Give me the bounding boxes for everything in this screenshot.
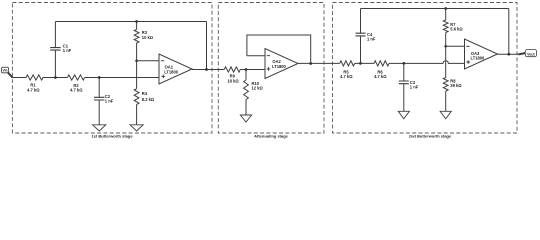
wire: R7 to inverting node (445, 33, 447, 47)
junction: inverting node of OA3 (444, 45, 447, 48)
junction: OA1 output node (205, 68, 208, 71)
ground under C2 (93, 125, 106, 131)
svg-text:Attenuating stage: Attenuating stage (254, 134, 289, 139)
port Vout (525, 50, 536, 57)
wire: C1 up to feedback rail (54, 22, 56, 48)
wire: Vout arrow lead (519, 53, 526, 54)
wire: C2 to ground (98, 100, 100, 125)
wire: C4 up to feedback rail (360, 9, 362, 34)
wire: node C up to C4 (360, 36, 362, 64)
wire: node A up to C1 (54, 50, 56, 77)
wire: C3 to ground (403, 84, 405, 112)
wire: feedback down to output node (206, 22, 208, 70)
ground under R8 (440, 111, 451, 119)
ground under R10 (240, 115, 251, 122)
resistor R4 (134, 89, 139, 105)
svg-text:1 nF: 1 nF (410, 85, 419, 90)
svg-text:4.7 kΩ: 4.7 kΩ (340, 74, 353, 79)
node A junction (R1/R2/C1) (54, 76, 57, 79)
op-amp OA2 LT1800 (265, 49, 298, 79)
wire: inverting node down to R4 (136, 61, 138, 89)
wire: OA2 output (298, 62, 340, 64)
svg-text:2nd Butterworth stage: 2nd Butterworth stage (409, 134, 452, 139)
wire: R6 to OA3 + input with hop over R8 (389, 61, 465, 64)
resistor R7 (443, 20, 448, 33)
wire: R1 to node A (43, 77, 67, 79)
wire: Vin to R1 (12, 77, 26, 79)
op-amp OA3 LT1800 (465, 39, 498, 69)
svg-text:1 nF: 1 nF (105, 99, 114, 104)
wire: feedback rail down to output node (508, 9, 510, 55)
wire: R4 to ground (136, 104, 138, 124)
resistor R5 (340, 61, 355, 66)
wire: inverting node to OA3 - input (446, 45, 465, 47)
wire: OA3 output (498, 53, 521, 55)
svg-text:8.2 kΩ: 8.2 kΩ (142, 97, 155, 102)
stage box: 2nd Butterworth stage (333, 3, 518, 134)
stage box: 1st Butterworth stage (12, 3, 212, 134)
wire: inverting node down to R8 (crosses main wire) (445, 46, 447, 77)
junction: OA2 output node (309, 62, 312, 65)
svg-text:4.7 kΩ: 4.7 kΩ (70, 88, 83, 93)
wire: node D down to C3 (403, 63, 405, 81)
wire: stage3 feedback rail (361, 8, 509, 10)
wire: OA2 feedback loop (247, 35, 311, 64)
wire: R5 to node C (355, 62, 374, 64)
op-amp OA1 LT1800 (159, 54, 192, 84)
wire: OA2 - input from feedback (247, 55, 265, 57)
node B junction (C2 tap) (98, 76, 101, 79)
resistor R6 (374, 61, 389, 66)
capacitor C4 (356, 33, 366, 36)
wire: R2 to op-amp + input (85, 77, 159, 79)
wire: OA1 output (192, 69, 224, 71)
capacitor C2 (94, 97, 104, 100)
ground under R4 (130, 125, 143, 131)
wire: R3 to inverting node (136, 43, 138, 61)
junction: node C (C4 tap) (359, 62, 362, 65)
wire: node down to R10 (245, 70, 247, 81)
wire: R8 to ground (445, 91, 447, 111)
junction: OA3 output node (507, 53, 510, 56)
svg-text:4.7 kΩ: 4.7 kΩ (27, 87, 40, 92)
wire: inverting node to OA1 - input (137, 60, 159, 62)
capacitor C1 (50, 48, 60, 51)
stage box: Attenuating stage (218, 3, 324, 134)
svg-text:4.7 kΩ: 4.7 kΩ (374, 74, 387, 79)
resistor R2 (67, 75, 84, 80)
capacitor C3 (399, 81, 409, 84)
svg-text:LT1800: LT1800 (164, 70, 179, 75)
resistor R3 (134, 29, 139, 43)
svg-text:R4: R4 (142, 91, 148, 96)
svg-text:Vout: Vout (527, 52, 535, 56)
junction: inverting node of OA1 (135, 59, 138, 62)
svg-text:Vin: Vin (2, 69, 7, 73)
svg-text:10 kΩ: 10 kΩ (142, 35, 154, 40)
wire: stage1 feedback rail (55, 21, 206, 23)
wire: R9 to OA2 + input (240, 69, 265, 71)
port Vin (1, 67, 8, 73)
svg-text:18 kΩ: 18 kΩ (227, 78, 239, 83)
svg-text:5.6 kΩ: 5.6 kΩ (450, 27, 463, 32)
svg-text:39 kΩ: 39 kΩ (450, 83, 462, 88)
wire: rail to R3 (136, 22, 138, 30)
wire: R10 to ground (245, 100, 247, 116)
svg-text:1 nF: 1 nF (367, 37, 376, 42)
svg-text:1 nF: 1 nF (63, 48, 72, 53)
resistor R8 (443, 78, 448, 92)
svg-text:12 kΩ: 12 kΩ (252, 86, 264, 91)
junction: R9/R10 divider node (245, 68, 248, 71)
junction: R3 top on feedback rail (135, 20, 138, 23)
svg-text:LT1800: LT1800 (471, 56, 486, 61)
junction: R7 top on feedback rail (444, 7, 447, 10)
wire: rail to R7 (445, 9, 447, 21)
resistor R10 (244, 80, 249, 100)
wire: node B down to C2 (98, 78, 100, 98)
wire: Vin arrow lead (8, 72, 12, 77)
ground under C3 (398, 111, 409, 119)
resistor R9 (224, 67, 240, 72)
junction: node D (C3 tap) (402, 62, 405, 65)
resistor R1 (26, 75, 43, 80)
svg-text:LT1800: LT1800 (272, 64, 287, 69)
svg-text:1st Butterworth stage: 1st Butterworth stage (91, 134, 133, 139)
